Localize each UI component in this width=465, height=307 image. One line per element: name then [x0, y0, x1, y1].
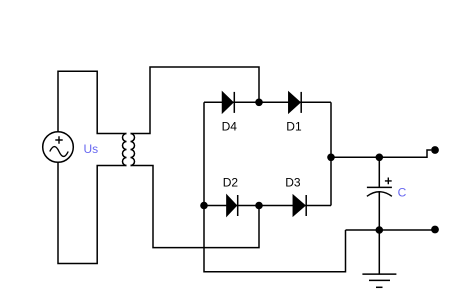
svg-text:D1: D1	[286, 120, 302, 134]
junction node bridge top	[255, 99, 263, 107]
ground	[362, 230, 396, 287]
junction node bridge bottom mid	[255, 202, 263, 210]
diode D3	[293, 195, 306, 216]
capacitor C	[367, 157, 392, 230]
wire source bottom to transformer primary bottom	[58, 162, 127, 263]
wire bridge bottom rail	[204, 205, 331, 207]
junction node output left	[327, 154, 335, 162]
diode D4	[223, 92, 235, 113]
junction node capacitor top	[376, 154, 384, 162]
svg-text:D3: D3	[285, 176, 301, 190]
wire bottom rail	[346, 229, 436, 231]
wire source top to transformer primary top	[58, 71, 127, 133]
diode D1	[289, 92, 301, 113]
wire bridge top rail	[204, 101, 331, 103]
wire secondary top to bridge top node	[131, 67, 260, 134]
transformer primary winding	[123, 134, 127, 166]
terminal positive	[431, 146, 439, 154]
svg-text:D2: D2	[223, 176, 239, 190]
transformer secondary winding	[131, 134, 135, 166]
AC source Us	[43, 132, 74, 163]
terminal negative	[431, 226, 439, 234]
svg-text:Us: Us	[84, 142, 99, 156]
wire bridge left node to bottom rail	[204, 206, 346, 272]
svg-text:D4: D4	[222, 120, 238, 134]
wire bridge left side	[203, 102, 205, 205]
diode D2	[227, 195, 238, 216]
svg-text:C: C	[398, 186, 407, 200]
wire bridge right side	[330, 102, 332, 205]
junction node bridge bottom left	[200, 202, 208, 210]
junction node ground	[376, 226, 384, 234]
wire positive output rail	[331, 150, 431, 157]
wire secondary bottom to bridge bottom node	[131, 166, 260, 248]
